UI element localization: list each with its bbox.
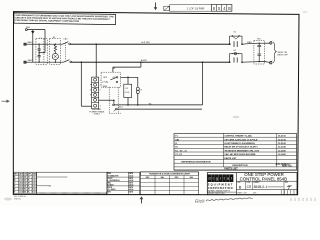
terminal RED input (24, 42, 33, 46)
svg-text:g: g (216, 176, 218, 181)
svg-text:E: E (14, 189, 15, 191)
filter module L1 dashed enclosure (36, 38, 47, 65)
svg-text:NUMBER: NUMBER (253, 182, 259, 184)
svg-text:CORPORATION: CORPORATION (208, 186, 233, 190)
svg-text:3: 3 (100, 90, 101, 92)
svg-text:CAP .047 MFD 1000V BLK BWD: CAP .047 MFD 1000V BLK BWD (224, 153, 256, 156)
plug pin upper (270, 41, 273, 44)
parts list header row (181, 161, 292, 168)
left revision table (14, 172, 37, 194)
svg-text:10-1092: 10-1092 (278, 154, 286, 156)
label REST ON / REST OFF (278, 52, 289, 57)
wire WHT bus after CB1 (72, 61, 231, 63)
svg-text:TB2-1: TB2-1 (118, 106, 123, 108)
notice box (14, 13, 116, 25)
circuit breaker CB1 (63, 38, 72, 63)
relay contact K1 lower (229, 50, 243, 63)
dec form footnote (14, 196, 27, 200)
svg-text:YEL: YEL (149, 103, 152, 105)
wire RED bus after CB1 (71, 43, 231, 45)
svg-text:PART NO.: PART NO. (282, 164, 293, 167)
svg-text:RL: RL (28, 180, 30, 182)
svg-text:REST OFF: REST OFF (278, 55, 289, 57)
approval block (107, 172, 140, 194)
wire GND horizontal (27, 29, 45, 31)
wire WHT through TB1 (242, 61, 270, 64)
svg-text:DRB 102: DRB 102 (14, 198, 21, 200)
svg-text:121: 121 (24, 180, 27, 182)
wire RED to TB1 (242, 42, 264, 44)
svg-text:WHT: WHT (28, 60, 34, 62)
svg-text:4: 4 (100, 106, 101, 108)
node GND label (25, 27, 30, 31)
svg-text:PARTS LIST: PARTS LIST (224, 168, 238, 171)
svg-text:16-2130: 16-2130 (278, 136, 286, 138)
wire coil return (113, 61, 204, 105)
svg-text:J.L. SMITH: J.L. SMITH (108, 189, 117, 191)
junction RED drop (95, 43, 97, 77)
bottom fold arrow (140, 196, 144, 203)
svg-text:RL: RL (28, 186, 30, 188)
svg-text:RL: RL (28, 192, 30, 194)
terminal block TB1 dashed (254, 38, 264, 64)
svg-text:RELAY SW 4 POS ELECT. SLDR T.: RELAY SW 4 POS ELECT. SLDR T. (224, 146, 258, 149)
svg-text:i: i (220, 176, 221, 181)
top fold arrow (154, 3, 158, 11)
title block outline (207, 173, 297, 195)
svg-text:R. BEST: R. BEST (108, 184, 114, 186)
border frame (13, 12, 299, 195)
conversion chart (141, 172, 199, 195)
svg-text:CONTROL TRANSF. TL-24A: CONTROL TRANSF. TL-24A (224, 135, 252, 138)
svg-text:CODE: CODE (246, 182, 250, 184)
wire remote line YEL (114, 103, 202, 111)
logo wordmark (207, 183, 236, 195)
svg-text:C1, C2: C1, C2 (175, 154, 182, 156)
top-right check box (164, 6, 170, 10)
junction WHT drop (81, 61, 92, 106)
top strip number cells (211, 5, 232, 12)
svg-text:12-2139: 12-2139 (278, 139, 286, 141)
svg-text:THORDSON MEISSNER CTRL 115V: THORDSON MEISSNER CTRL 115V (224, 150, 259, 152)
connector brace (273, 42, 276, 63)
svg-text:i: i (213, 176, 214, 181)
plug pin lower (270, 61, 273, 64)
svg-text:F: F (14, 192, 15, 194)
wire GND drop to capacitor midpoint (39, 30, 45, 53)
wire S1 to WHT bus (113, 61, 142, 72)
top strip text cell (170, 5, 212, 12)
svg-text:150: 150 (24, 189, 27, 191)
lamp I1 (136, 77, 143, 105)
svg-text:B: B (239, 184, 242, 189)
svg-text:REFERENCE DESIGNATION: REFERENCE DESIGNATION (181, 161, 211, 164)
terminal strip pin numbers (100, 80, 102, 108)
parts list table (174, 134, 297, 171)
svg-text:2: 2 (100, 85, 101, 87)
svg-text:A WHT: A WHT (141, 59, 148, 62)
margin ticks bottom right (291, 198, 315, 201)
label BLK TRN on RED bus (142, 42, 151, 44)
svg-text:12-2143: 12-2143 (278, 142, 286, 145)
number row (237, 181, 298, 195)
svg-text:1: 1 (100, 80, 101, 82)
title text (240, 172, 287, 182)
svg-text:PARTS LIST: PARTS LIST (224, 157, 237, 160)
handwritten note (195, 198, 253, 205)
svg-text:130: 130 (24, 183, 27, 185)
svg-text:854B-0-1: 854B-0-1 (254, 185, 268, 189)
svg-text:4708-2: 4708-2 (94, 114, 101, 116)
relay contact K1 upper (229, 32, 243, 47)
svg-text:REM: REM (103, 86, 108, 88)
wire WHT bus (26, 61, 63, 63)
capacitor chain in TB1 (257, 43, 261, 63)
svg-text:LIGHT DRAKE 11-504 W/NEON: LIGHT DRAKE 11-504 W/NEON (224, 142, 255, 145)
svg-text:RED: RED (247, 42, 252, 44)
wire S1 output (120, 77, 137, 79)
parts list rows text (175, 135, 286, 160)
svg-text:12-2090: 12-2090 (278, 150, 286, 152)
svg-text:DESCRIPTION: DESCRIPTION (233, 165, 248, 167)
svg-text:LOCAL: LOCAL (102, 81, 108, 84)
wire strip tap (99, 100, 115, 104)
parts list caption row (174, 168, 297, 171)
svg-text:l: l (231, 176, 232, 181)
svg-text:1 1 OF 1 B PWR: 1 1 OF 1 B PWR (187, 7, 205, 10)
svg-text:161: 161 (24, 192, 27, 194)
edge tick band (37, 192, 106, 194)
svg-text:PRINTED CIRCUIT REV.: PRINTED CIRCUIT REV. (208, 193, 225, 195)
resistor and arrester E1 (52, 44, 58, 63)
dashed assembly outline lower (109, 87, 121, 113)
scan smudges (4, 11, 308, 200)
terminal WHT input (24, 60, 33, 64)
wire RED to plug pin (264, 42, 269, 44)
svg-text:SHEET 1 OF 1: SHEET 1 OF 1 (237, 192, 247, 194)
svg-text:K1 - K2 - J1: K1 - K2 - J1 (175, 150, 187, 152)
wire RED bus (26, 43, 62, 45)
surge module E1 dashed enclosure (49, 37, 60, 64)
relay coil K1 (124, 77, 132, 105)
filing tick boxes (237, 190, 294, 195)
switch S1 dashed enclosure (101, 68, 120, 88)
svg-text:CKT. BKR. A-WO-5031-10 2-POLE: CKT. BKR. A-WO-5031-10 2-POLE (224, 138, 258, 141)
label 4 WHT on WHT bus (141, 59, 148, 62)
svg-text:B: B (228, 6, 231, 11)
left fold arrow (2, 100, 10, 103)
svg-text:TRANSISTOR & DIODE CONVERSION: TRANSISTOR & DIODE CONVERSION CHART (149, 173, 191, 176)
svg-text:d: d (208, 176, 210, 181)
label power transformer (89, 108, 105, 115)
DEC logo tiles (208, 174, 234, 182)
terminal strip TB (90, 77, 98, 109)
svg-text:Rick: Rick (195, 198, 206, 205)
svg-text:12-2146: 12-2146 (278, 146, 286, 149)
capacitor C1 chain in L1 (38, 44, 41, 63)
svg-text:RED: RED (28, 42, 33, 44)
svg-text:BLK TRN: BLK TRN (142, 42, 151, 44)
svg-text:CS: CS (247, 185, 252, 189)
ground arrow to WHT line (31, 30, 34, 63)
revision history box (37, 172, 107, 194)
svg-text:DIST: DIST (253, 192, 257, 194)
